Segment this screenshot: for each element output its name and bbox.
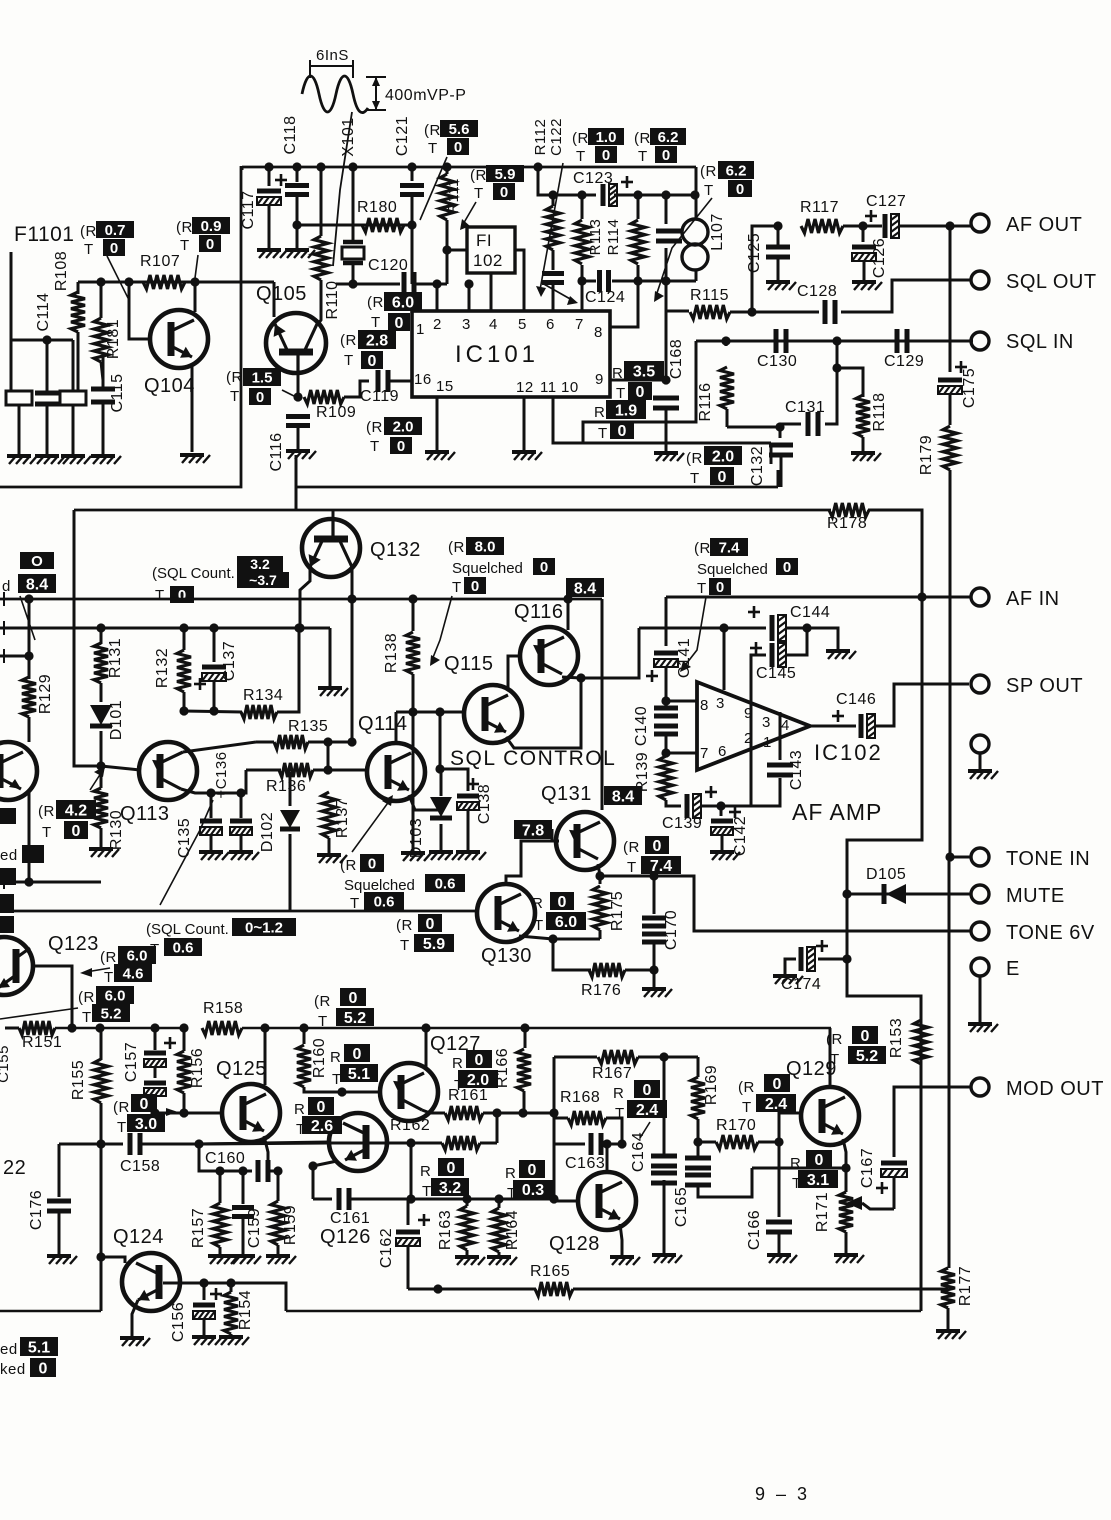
wire xyxy=(862,226,865,242)
svg-text:1.0: 1.0 xyxy=(596,129,617,146)
svg-text:C137: C137 xyxy=(221,641,238,681)
annotation left cut box xyxy=(20,552,54,569)
wire xyxy=(721,836,724,851)
svg-text:C160: C160 xyxy=(205,1150,245,1167)
svg-text:R159: R159 xyxy=(282,1205,299,1245)
wire xyxy=(893,1178,896,1209)
transistor Q131 xyxy=(556,812,614,870)
wire xyxy=(154,1066,157,1078)
svg-text:(R: (R xyxy=(686,450,703,467)
junction xyxy=(194,1139,203,1148)
resistor R167 xyxy=(598,1050,638,1064)
transistor Q127 xyxy=(380,1063,438,1121)
junction xyxy=(293,392,302,401)
wire xyxy=(581,265,584,281)
resistor R116 xyxy=(720,367,734,409)
junction xyxy=(492,1108,501,1117)
wire xyxy=(663,1180,666,1254)
svg-text:T: T xyxy=(82,1009,92,1026)
wire xyxy=(665,281,668,380)
svg-text:C118: C118 xyxy=(282,115,299,154)
transistor Q114 xyxy=(367,743,425,801)
svg-text:C128: C128 xyxy=(797,283,837,300)
wire xyxy=(297,427,300,450)
wire xyxy=(18,405,21,455)
svg-text:T: T xyxy=(180,237,190,254)
capacitor C166 xyxy=(766,1222,792,1232)
capacitor C139 xyxy=(685,794,690,818)
wire xyxy=(496,1113,499,1143)
svg-text:5: 5 xyxy=(518,316,527,333)
svg-text:R167: R167 xyxy=(592,1065,632,1082)
svg-text:Q104: Q104 xyxy=(144,375,195,397)
resistor R155 xyxy=(94,1059,108,1103)
svg-text:3.5: 3.5 xyxy=(633,363,655,380)
ground xyxy=(317,855,347,863)
svg-text:SP OUT: SP OUT xyxy=(1006,675,1083,697)
junction xyxy=(661,748,670,757)
junction xyxy=(96,277,105,286)
wire pin 7 xyxy=(666,752,697,755)
ground xyxy=(47,1256,77,1264)
wire rail xyxy=(55,1027,184,1030)
svg-text:R: R xyxy=(594,404,605,421)
svg-text:T: T xyxy=(576,148,586,165)
wire xyxy=(242,1171,245,1204)
wire R180 line xyxy=(297,224,412,227)
wire xyxy=(313,769,367,772)
svg-text:3.0: 3.0 xyxy=(135,1116,157,1133)
svg-text:T: T xyxy=(697,580,707,597)
svg-text:5.2: 5.2 xyxy=(344,1010,366,1027)
wire R108 top xyxy=(77,282,80,294)
wire mid bus xyxy=(0,598,602,601)
resistor R175 xyxy=(593,886,607,930)
svg-text:C143: C143 xyxy=(788,750,805,790)
wire xyxy=(752,226,778,312)
svg-text:C124: C124 xyxy=(585,289,625,306)
svg-text:C141: C141 xyxy=(676,638,693,678)
svg-text:C159: C159 xyxy=(246,1208,263,1248)
ground xyxy=(826,651,856,659)
svg-text:2: 2 xyxy=(433,316,442,333)
wire xyxy=(410,1143,413,1199)
svg-text:R134: R134 xyxy=(243,687,283,704)
wire Q132 collector xyxy=(332,510,335,519)
junction xyxy=(802,623,811,632)
junction xyxy=(747,307,756,316)
capacitor C131 xyxy=(808,412,818,436)
svg-text:O: O xyxy=(31,553,43,570)
svg-text:0.9: 0.9 xyxy=(201,218,222,235)
ground xyxy=(231,1256,261,1264)
svg-text:0.6: 0.6 xyxy=(374,893,395,910)
wire xyxy=(0,881,101,884)
wire Q131 emitter xyxy=(598,864,600,876)
junction xyxy=(348,162,357,171)
svg-text:(R: (R xyxy=(470,167,487,184)
svg-text:6.0: 6.0 xyxy=(105,987,126,1004)
junction xyxy=(292,162,301,171)
wire Q130 collector xyxy=(506,841,552,884)
diode D102 xyxy=(280,810,300,828)
svg-text:Q128: Q128 xyxy=(549,1233,600,1255)
svg-text:C175: C175 xyxy=(961,368,978,408)
svg-text:(SQL Count.: (SQL Count. xyxy=(146,921,229,938)
wire xyxy=(296,167,299,182)
F1101 box border xyxy=(0,166,241,487)
junction xyxy=(42,335,51,344)
svg-text:6.2: 6.2 xyxy=(726,162,747,179)
wire pin 3 top xyxy=(723,628,726,690)
transistor Q126 xyxy=(329,1113,387,1171)
svg-text:R162: R162 xyxy=(390,1117,430,1134)
svg-text:C138: C138 xyxy=(476,784,493,824)
wire xyxy=(698,1168,752,1197)
wire xyxy=(101,362,103,380)
svg-text:0: 0 xyxy=(861,1028,870,1045)
wire xyxy=(751,655,766,806)
wire R110 to Q105 collector xyxy=(318,280,321,324)
junction xyxy=(661,696,670,705)
svg-text:0: 0 xyxy=(662,147,670,164)
svg-text:0: 0 xyxy=(426,916,435,933)
leader arrow xyxy=(90,770,103,790)
junction xyxy=(518,1108,527,1117)
svg-text:1: 1 xyxy=(763,734,772,751)
svg-text:0: 0 xyxy=(395,315,404,332)
junction xyxy=(407,220,416,229)
svg-text:2: 2 xyxy=(744,730,753,747)
svg-text:T: T xyxy=(155,587,165,604)
capacitor C126 xyxy=(852,245,876,250)
svg-text:8.0: 8.0 xyxy=(475,538,496,555)
wire xyxy=(296,396,302,399)
transistor Q105 xyxy=(266,313,326,373)
resistor R137 xyxy=(322,792,336,838)
capacitor C165b xyxy=(685,1175,711,1185)
svg-text:0: 0 xyxy=(636,384,645,401)
wire xyxy=(411,225,414,284)
svg-text:400mVP-P: 400mVP-P xyxy=(385,87,466,104)
wire Q125 emitter xyxy=(264,1136,268,1171)
resistor R156 xyxy=(177,1051,191,1093)
svg-text:10: 10 xyxy=(561,379,579,396)
svg-text:R178: R178 xyxy=(827,515,867,532)
wire xyxy=(726,409,729,427)
junction xyxy=(294,623,303,632)
diode D101 xyxy=(90,705,112,725)
svg-text:22: 22 xyxy=(3,1157,26,1179)
svg-text:E: E xyxy=(1006,958,1020,980)
wire xyxy=(538,167,553,195)
svg-text:C158: C158 xyxy=(120,1158,160,1175)
wire xyxy=(758,1141,779,1144)
ground xyxy=(652,1255,682,1263)
resistor R178 xyxy=(829,503,869,517)
terminal TONE 6V xyxy=(971,922,989,940)
wire xyxy=(440,769,443,796)
wire Q128 base xyxy=(554,1200,578,1203)
ground xyxy=(257,250,287,258)
wire xyxy=(665,410,668,452)
capacitor C157 xyxy=(144,1051,166,1056)
wire xyxy=(0,627,330,630)
wire xyxy=(219,1247,222,1255)
transistor Q128 xyxy=(578,1172,636,1230)
junction xyxy=(945,852,954,861)
svg-text:R: R xyxy=(612,365,623,382)
wire xyxy=(100,828,103,848)
wire xyxy=(241,770,246,793)
svg-text:T: T xyxy=(318,1013,328,1030)
svg-text:C126: C126 xyxy=(871,238,888,278)
svg-text:0: 0 xyxy=(368,855,376,872)
junction xyxy=(659,1052,668,1061)
svg-text:Squelched: Squelched xyxy=(452,560,523,577)
svg-text:0: 0 xyxy=(447,1160,456,1177)
terminal SQL OUT xyxy=(971,271,989,289)
svg-text:R166: R166 xyxy=(494,1048,511,1088)
inductor L107 xyxy=(682,219,708,245)
svg-text:3: 3 xyxy=(762,714,771,731)
amplitude arrow 400mVP-P xyxy=(366,77,386,110)
zener D103 xyxy=(430,797,452,817)
wire xyxy=(554,1143,585,1146)
junction xyxy=(661,375,670,384)
wire xyxy=(697,1142,700,1157)
junction xyxy=(548,934,557,943)
svg-text:5.9: 5.9 xyxy=(495,166,516,183)
capacitor C161 xyxy=(339,1188,349,1210)
svg-text:8.4: 8.4 xyxy=(26,576,48,593)
resistor R176 xyxy=(589,963,625,977)
resistor R180 xyxy=(362,218,404,232)
svg-text:0: 0 xyxy=(368,353,377,370)
svg-text:F1101: F1101 xyxy=(14,223,75,246)
wire MUTE line xyxy=(847,893,971,896)
svg-text:5.2: 5.2 xyxy=(856,1048,878,1065)
wire border step xyxy=(295,455,298,487)
resistor R108 xyxy=(71,292,85,332)
svg-text:R116: R116 xyxy=(697,382,714,421)
svg-text:0: 0 xyxy=(540,559,548,576)
junction xyxy=(179,1023,188,1032)
svg-text:D105: D105 xyxy=(866,866,906,883)
wire xyxy=(183,1093,186,1113)
wire to IC101 pin 2 xyxy=(436,284,439,311)
wire FI102 to pin 5 xyxy=(515,250,524,311)
svg-text:Q125: Q125 xyxy=(216,1058,267,1080)
wire xyxy=(863,262,866,281)
wire xyxy=(552,195,555,206)
svg-text:T: T xyxy=(428,140,438,157)
wire xyxy=(230,1334,233,1336)
wire xyxy=(100,1028,103,1060)
leader xyxy=(0,1008,78,1019)
wire xyxy=(407,1247,410,1289)
svg-text:SQL OUT: SQL OUT xyxy=(1006,271,1097,293)
svg-text:Q123: Q123 xyxy=(48,933,99,955)
svg-text:0.6: 0.6 xyxy=(173,939,194,956)
wire xyxy=(277,1171,280,1201)
capacitor C175 xyxy=(938,378,962,383)
svg-text:0: 0 xyxy=(500,184,508,201)
svg-text:R: R xyxy=(532,895,543,912)
wire xyxy=(698,1141,716,1144)
svg-text:0: 0 xyxy=(528,1162,537,1179)
svg-text:T: T xyxy=(534,917,544,934)
capacitor C140a xyxy=(654,708,678,716)
ground xyxy=(642,989,672,997)
svg-text:C139: C139 xyxy=(662,815,702,832)
svg-text:C142: C142 xyxy=(732,816,749,856)
wire xyxy=(614,194,696,197)
svg-text:(R: (R xyxy=(367,294,384,311)
wire xyxy=(100,731,103,788)
svg-text:(R: (R xyxy=(78,989,95,1006)
svg-text:R: R xyxy=(613,1085,624,1102)
wire xyxy=(778,1142,781,1217)
junction xyxy=(432,279,441,288)
svg-text:9: 9 xyxy=(744,705,753,722)
wire Q113 lower lead xyxy=(181,789,241,793)
wire xyxy=(785,959,796,975)
ground xyxy=(318,688,348,696)
svg-text:C127: C127 xyxy=(866,193,906,210)
wire R167 line xyxy=(554,1056,597,1059)
wire xyxy=(100,628,103,644)
svg-text:(R: (R xyxy=(623,839,640,856)
wire output xyxy=(810,725,856,728)
wire xyxy=(289,772,292,806)
svg-text:0: 0 xyxy=(317,1099,326,1116)
junction xyxy=(24,594,33,603)
svg-text:0: 0 xyxy=(353,1046,362,1063)
ground xyxy=(936,1331,966,1339)
capacitor C132 xyxy=(769,445,793,455)
wire section border xyxy=(296,486,778,489)
wire xyxy=(467,811,470,851)
wire xyxy=(102,355,105,389)
svg-text:6.0: 6.0 xyxy=(555,914,577,931)
wire xyxy=(411,167,414,181)
svg-text:Q126: Q126 xyxy=(320,1226,371,1248)
wire xyxy=(327,742,330,770)
annotation cut box xyxy=(0,894,14,913)
svg-text:D103: D103 xyxy=(408,818,425,858)
wire xyxy=(637,265,640,281)
transistor Q104 xyxy=(150,310,208,368)
junction xyxy=(421,1023,430,1032)
transistor Q129 xyxy=(801,1087,859,1145)
annotation cut box xyxy=(0,916,14,933)
junction xyxy=(299,1023,308,1032)
terminal MUTE xyxy=(971,885,989,903)
wire xyxy=(498,1199,501,1208)
wire to pin 16 xyxy=(388,380,412,383)
resistor R136 xyxy=(279,763,313,777)
wire to pin 7 xyxy=(581,281,584,311)
junction xyxy=(337,1087,346,1096)
ground xyxy=(455,1257,485,1265)
wire xyxy=(665,248,668,311)
wire xyxy=(268,167,271,186)
wire xyxy=(352,167,355,240)
capacitor C116 xyxy=(286,417,310,426)
wire xyxy=(289,834,292,911)
svg-text:ked: ked xyxy=(0,1361,26,1378)
svg-text:R: R xyxy=(330,1049,341,1066)
wire xyxy=(0,655,29,658)
wire xyxy=(154,1097,157,1113)
leader xyxy=(640,1122,650,1138)
svg-text:4: 4 xyxy=(781,717,790,734)
wire xyxy=(28,717,31,742)
svg-text:C163: C163 xyxy=(565,1155,605,1172)
wire xyxy=(213,682,216,711)
svg-text:(R: (R xyxy=(340,332,357,349)
transistor Q113 xyxy=(139,742,197,800)
resistor R151 xyxy=(19,1021,55,1035)
transistor Q116 xyxy=(520,627,578,685)
svg-text:0: 0 xyxy=(602,147,610,164)
wire tone loop xyxy=(847,597,922,1082)
capacitor C156 xyxy=(193,1303,215,1308)
svg-text:T: T xyxy=(704,182,714,199)
svg-text:R160: R160 xyxy=(311,1038,328,1078)
wire pin 15 xyxy=(436,397,439,451)
resistor R169 xyxy=(691,1077,705,1119)
wire xyxy=(786,628,838,650)
wire xyxy=(720,806,723,816)
resistor R168 xyxy=(568,1111,606,1125)
resistor R117 xyxy=(801,219,843,233)
wire C123 line xyxy=(553,194,596,197)
wire xyxy=(277,628,299,712)
junction xyxy=(24,877,33,886)
wire xyxy=(818,958,847,961)
wire xyxy=(554,1117,568,1120)
svg-text:12: 12 xyxy=(516,379,534,396)
capacitor C144 xyxy=(770,615,775,641)
ground xyxy=(654,453,684,461)
svg-text:R131: R131 xyxy=(107,638,124,678)
svg-text:Squelched: Squelched xyxy=(344,877,415,894)
svg-text:2.0: 2.0 xyxy=(393,418,414,435)
junction xyxy=(693,1137,702,1146)
junction xyxy=(442,245,451,254)
capacitor C121 xyxy=(400,186,424,195)
terminal MOD OUT xyxy=(971,1078,989,1096)
junction xyxy=(406,1194,415,1203)
resistor R166 xyxy=(517,1049,531,1091)
wire Q115 emitter xyxy=(506,678,581,748)
wire xyxy=(837,341,863,397)
svg-text:FI: FI xyxy=(476,231,492,250)
ground xyxy=(120,1338,150,1346)
svg-text:(R: (R xyxy=(700,163,717,180)
annotation cut box xyxy=(0,868,16,885)
wire pin 11 loop xyxy=(553,397,771,443)
wire C143 stem xyxy=(779,712,782,738)
wire xyxy=(780,423,801,426)
junction xyxy=(775,422,784,431)
wire xyxy=(751,778,780,806)
junction xyxy=(435,764,444,773)
wire Q128 collector xyxy=(606,1144,609,1172)
leader from sine to X101 xyxy=(333,112,352,266)
